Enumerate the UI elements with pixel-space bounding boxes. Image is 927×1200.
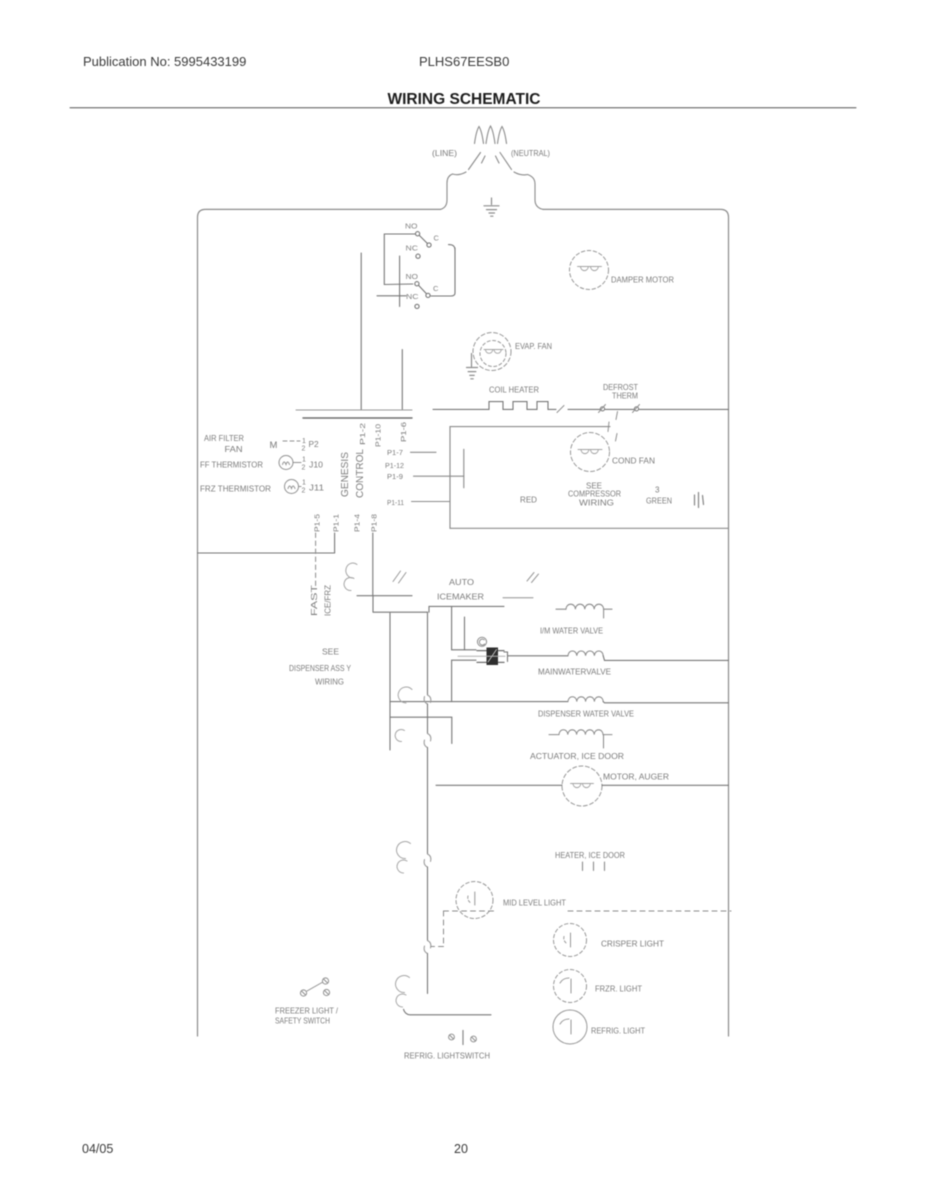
svg-text:P1-5: P1-5 [312, 514, 321, 532]
evaporator fan motor [473, 333, 511, 371]
mid level light bulb [456, 882, 493, 919]
svg-text:CONTROL: CONTROL [354, 449, 366, 498]
svg-text:2: 2 [302, 488, 306, 495]
wire break slashes right [527, 573, 539, 583]
wire neutral-side drop from plug [500, 153, 512, 170]
fill solenoid right bracket [504, 652, 508, 662]
wire refrig switch feed [404, 1009, 492, 1015]
defrost thermostat arm 1 [599, 405, 606, 413]
svg-text:WIRING: WIRING [579, 499, 614, 508]
svg-text:FREEZER LIGHT /: FREEZER LIGHT / [275, 1007, 339, 1016]
svg-text:P1-10: P1-10 [374, 424, 383, 447]
wire stub under slashes [503, 597, 533, 599]
switch S1 arm [419, 235, 427, 243]
long riser wire segment 3 [427, 748, 429, 855]
FF thermistor symbol [279, 456, 293, 470]
wire break slash on bus [557, 406, 564, 413]
crisper light bulb [554, 924, 587, 957]
svg-text:P1-1: P1-1 [331, 514, 340, 532]
svg-text:M: M [270, 440, 278, 451]
svg-text:AUTO: AUTO [449, 577, 475, 587]
svg-text:(LINE): (LINE) [432, 148, 457, 158]
long riser wire segment 5 [427, 954, 429, 994]
svg-text:THERM: THERM [612, 391, 638, 401]
fill solenoid armature core [487, 648, 499, 666]
svg-text:DISPENSER ASS Y: DISPENSER ASS Y [289, 664, 352, 673]
main bus wire to right border [639, 408, 729, 410]
svg-text:FF THERMISTOR: FF THERMISTOR [200, 460, 263, 470]
svg-text:SEE: SEE [322, 648, 340, 657]
svg-text:DAMPER MOTOR: DAMPER MOTOR [611, 275, 674, 285]
svg-text:I/M WATER VALVE: I/M WATER VALVE [540, 626, 603, 636]
wire icemaker feed horizontal [357, 595, 412, 597]
svg-text:ACTUATOR, ICE DOOR: ACTUATOR, ICE DOOR [530, 751, 624, 761]
wire vertical to genesis P1-2 [360, 253, 362, 410]
svg-text:REFRIG. LIGHTSWITCH: REFRIG. LIGHTSWITCH [404, 1051, 490, 1061]
svg-text:C: C [433, 284, 439, 293]
connector hooks at break 2 [424, 734, 431, 748]
dashed wire air filter fan to P2 [283, 440, 300, 442]
cabinet outline right and top [543, 209, 729, 1036]
svg-text:GENESIS: GENESIS [339, 452, 351, 497]
svg-text:C: C [434, 234, 440, 243]
wire main valve to border [603, 656, 728, 661]
wire icemaker valve drop 1 [452, 606, 476, 649]
svg-text:FRZ THERMISTOR: FRZ THERMISTOR [200, 484, 271, 494]
actuator ice door coil [549, 730, 612, 748]
wire solenoid lower feed [452, 660, 476, 701]
connector break arcs left [344, 563, 357, 590]
freezer light bulb [554, 970, 587, 1003]
resistor coil heater [483, 402, 556, 410]
cabinet cord-entry bump left [441, 183, 448, 209]
wire center prong tick right [496, 156, 500, 163]
svg-text:NC: NC [406, 292, 419, 301]
switch S2 NO contact [415, 282, 419, 286]
svg-text:3: 3 [655, 486, 660, 495]
svg-text:J10: J10 [309, 460, 323, 470]
svg-text:SAFETY SWITCH: SAFETY SWITCH [275, 1017, 330, 1026]
switch S1 NO contact [416, 232, 420, 236]
cabinet cord-entry bump right [535, 184, 543, 209]
svg-text:P1-9: P1-9 [387, 472, 403, 481]
title rule [70, 107, 856, 109]
connector break arc on dispenser line [398, 687, 412, 703]
svg-text:P2: P2 [309, 439, 320, 449]
wire center prong tick left [482, 156, 486, 163]
wire line-side drop from plug [469, 153, 481, 170]
wire between defrost contacts [605, 408, 634, 410]
I/M water valve coil [556, 604, 612, 618]
switch S2 NC contact [415, 304, 419, 308]
condenser fan motor [571, 433, 610, 472]
connector hooks at break 1 [424, 695, 431, 704]
svg-text:RED: RED [520, 496, 537, 505]
wire icemaker step [373, 596, 428, 613]
svg-text:FAN: FAN [225, 444, 243, 454]
switch S1 bracket left [384, 234, 415, 285]
wire border to P1-1 [198, 552, 335, 554]
svg-text:MID LEVEL LIGHT: MID LEVEL LIGHT [503, 898, 566, 908]
long riser wire segment 1 [427, 612, 429, 695]
svg-text:NC: NC [406, 243, 419, 252]
defrost thermostat contact 2 [634, 407, 638, 411]
svg-text:HEATER, ICE DOOR: HEATER, ICE DOOR [555, 850, 625, 860]
connector hooks at break 4 [424, 941, 431, 954]
wire actuator bracket [390, 717, 452, 743]
right rail vertical [454, 248, 456, 293]
wire auger line right [602, 784, 729, 786]
dispenser water valve coil [568, 697, 603, 702]
damper motor M1 [570, 251, 609, 290]
connector bars right of green [695, 493, 704, 508]
svg-text:DISPENSER WATER VALVE: DISPENSER WATER VALVE [538, 709, 634, 719]
connector curl left of break 2 [395, 730, 404, 742]
svg-text:1: 1 [302, 438, 306, 445]
wire neutral-side hook into cabinet bump [514, 172, 535, 184]
switch S2 C contact [426, 293, 430, 297]
svg-text:1: 1 [302, 457, 306, 464]
svg-text:2: 2 [302, 465, 306, 472]
svg-text:REFRIG. LIGHT: REFRIG. LIGHT [591, 1026, 645, 1036]
wire P1-7 stub [411, 451, 437, 453]
wire S1 C to right rail [449, 245, 456, 250]
svg-text:FAST: FAST [310, 585, 319, 616]
svg-text:04/05: 04/05 [82, 1142, 113, 1156]
power plug prong 1 [475, 127, 484, 144]
svg-text:AIR FILTER: AIR FILTER [204, 433, 244, 443]
fill solenoid mid line [458, 655, 505, 657]
refrigerator light bulb [553, 1010, 587, 1044]
svg-text:P1-8: P1-8 [370, 514, 379, 532]
connector curls at bottom of riser [396, 976, 410, 1007]
connector hooks at break 3 [424, 854, 431, 867]
svg-text:J11: J11 [309, 483, 324, 493]
defrost thermostat contact 1 [600, 407, 604, 411]
dashed wire defrost to cond fan [608, 412, 618, 442]
svg-text:FRZR. LIGHT: FRZR. LIGHT [595, 984, 642, 994]
fill solenoid top plate [477, 650, 504, 652]
svg-text:2: 2 [302, 446, 306, 453]
switch S1 NC contact [416, 254, 420, 258]
switch S2 arm [419, 285, 427, 293]
ground symbol [484, 198, 499, 216]
cabinet outline left and top [198, 209, 441, 1036]
svg-text:COMPRESSOR: COMPRESSOR [568, 490, 621, 499]
long riser wire segment 4 [427, 867, 429, 941]
wire icemaker valve drop 2 [464, 617, 466, 650]
auger motor [562, 766, 602, 806]
main bus wire left of coil heater [433, 408, 483, 410]
svg-text:WIRING SCHEMATIC: WIRING SCHEMATIC [388, 91, 541, 108]
wire dispenser valve line [390, 701, 568, 703]
svg-text:ICEMAKER: ICEMAKER [437, 592, 484, 602]
wire solenoid to main valve [508, 655, 569, 657]
svg-text:Publication No: 5995433199: Publication No: 5995433199 [83, 54, 246, 69]
svg-text:ICE/FRZ: ICE/FRZ [324, 585, 333, 616]
svg-text:COIL HEATER: COIL HEATER [489, 385, 539, 395]
wire vertical to genesis P1-6 [401, 350, 403, 411]
wire FF thermistor to J10 [294, 462, 302, 464]
svg-text:20: 20 [454, 1142, 468, 1156]
FRZ thermistor symbol [285, 480, 299, 494]
freezer light safety switch [300, 978, 329, 996]
wire rail bottom to S2 C [431, 293, 455, 296]
power plug prong 2 [486, 126, 495, 144]
ground at evap fan [467, 354, 478, 379]
genesis control connector bar bottom [303, 417, 412, 419]
wire P1-9 to junction [414, 475, 464, 477]
junction vertical at compressor box [463, 449, 465, 488]
svg-text:P1-7: P1-7 [387, 448, 403, 457]
copyright-style C mark [477, 637, 486, 646]
wire FRZ thermistor to J11 [299, 486, 302, 488]
connector curls left of break 3 [397, 842, 411, 873]
wire auger line left [436, 784, 562, 786]
main bus wire to defrost therm [568, 408, 601, 410]
defrost thermostat arm 2 [633, 405, 640, 413]
svg-text:P1-4: P1-4 [353, 514, 362, 532]
svg-text:NO: NO [405, 222, 418, 231]
dashed wire P1-5 to fast ice [315, 533, 317, 587]
label SEE DISPENSER ASSY WIRING [289, 648, 352, 687]
svg-text:P1-6: P1-6 [399, 422, 408, 442]
svg-text:(NEUTRAL): (NEUTRAL) [511, 148, 550, 158]
heater ice door element ticks [583, 862, 605, 871]
refrig light switch [449, 1031, 477, 1045]
compressor box outline [450, 427, 729, 529]
svg-text:PLHS67EESB0: PLHS67EESB0 [419, 54, 509, 69]
long riser wire segment 2 [427, 704, 429, 734]
fill solenoid bottom plate [477, 661, 504, 663]
svg-text:EVAP. FAN: EVAP. FAN [515, 341, 552, 351]
svg-text:P1-2: P1-2 [358, 423, 367, 445]
svg-text:WIRING: WIRING [315, 678, 344, 687]
wire line-side hook into cabinet bump [447, 172, 466, 183]
wire P1-1 drop [334, 533, 336, 553]
svg-text:MOTOR, AUGER: MOTOR, AUGER [603, 772, 669, 782]
wire P1-8 drop [372, 533, 374, 596]
wire stub left of S2 [377, 295, 406, 297]
svg-text:CRISPER LIGHT: CRISPER LIGHT [601, 939, 664, 949]
svg-text:P1-11: P1-11 [387, 498, 404, 507]
svg-text:P1-12: P1-12 [385, 461, 404, 470]
power plug prong 3 [498, 127, 507, 144]
left column labels: air filter fan [200, 433, 324, 494]
svg-text:1: 1 [302, 480, 306, 487]
svg-text:NO: NO [406, 272, 419, 281]
switch S1 C contact [427, 243, 431, 247]
wire dispenser assy vertical [389, 613, 391, 750]
svg-text:MAINWATERVALVE: MAINWATERVALVE [538, 667, 611, 677]
dashed lighting bus [431, 911, 731, 947]
switch S1 pole vertical [399, 256, 401, 307]
svg-text:GREEN: GREEN [646, 497, 672, 506]
main water valve coil [568, 651, 603, 656]
wire break slashes left [393, 571, 406, 583]
svg-text:COND FAN: COND FAN [612, 456, 655, 466]
wire dispenser valve to border [603, 702, 728, 703]
wire P1-11 to box [412, 501, 450, 503]
wire icemaker bus [429, 606, 504, 612]
genesis control connector bar top [296, 409, 412, 411]
